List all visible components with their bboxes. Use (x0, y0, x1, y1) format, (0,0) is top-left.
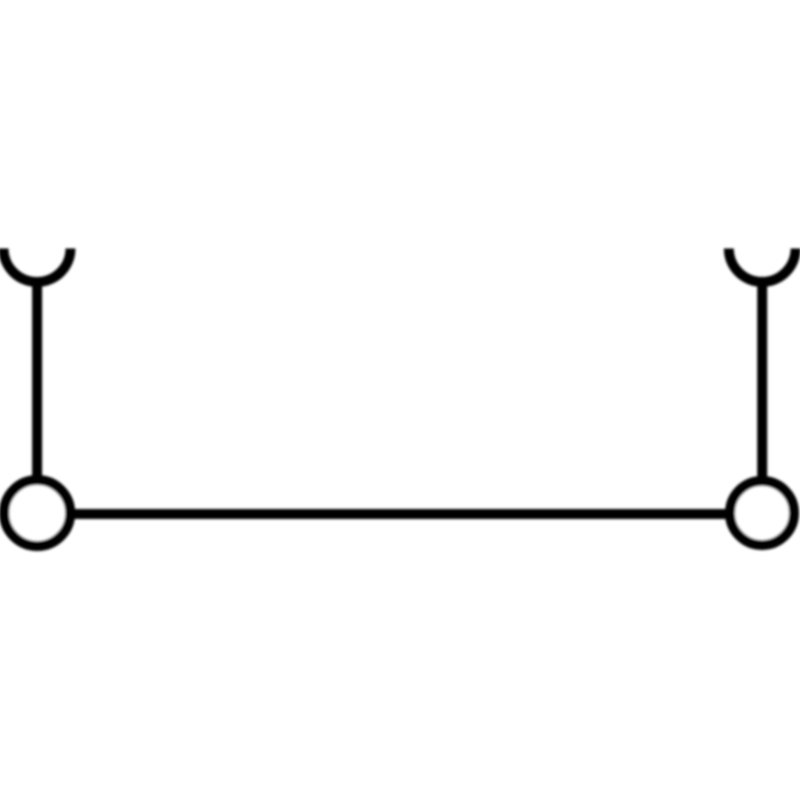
terminal T1 (open semicircular port symbol, top-left) (4, 249, 71, 282)
node B (open circle junction, bottom-right) (730, 481, 794, 545)
node A (open circle junction, bottom-left) (4, 480, 70, 546)
terminal T2 (open semicircular port symbol, top-right) (729, 249, 796, 282)
wire: right vertical from terminal T2 down to node B (757, 282, 767, 514)
wire: horizontal net between node A and node B (37, 509, 762, 519)
wire: left vertical from terminal T1 down to node A (32, 282, 42, 514)
